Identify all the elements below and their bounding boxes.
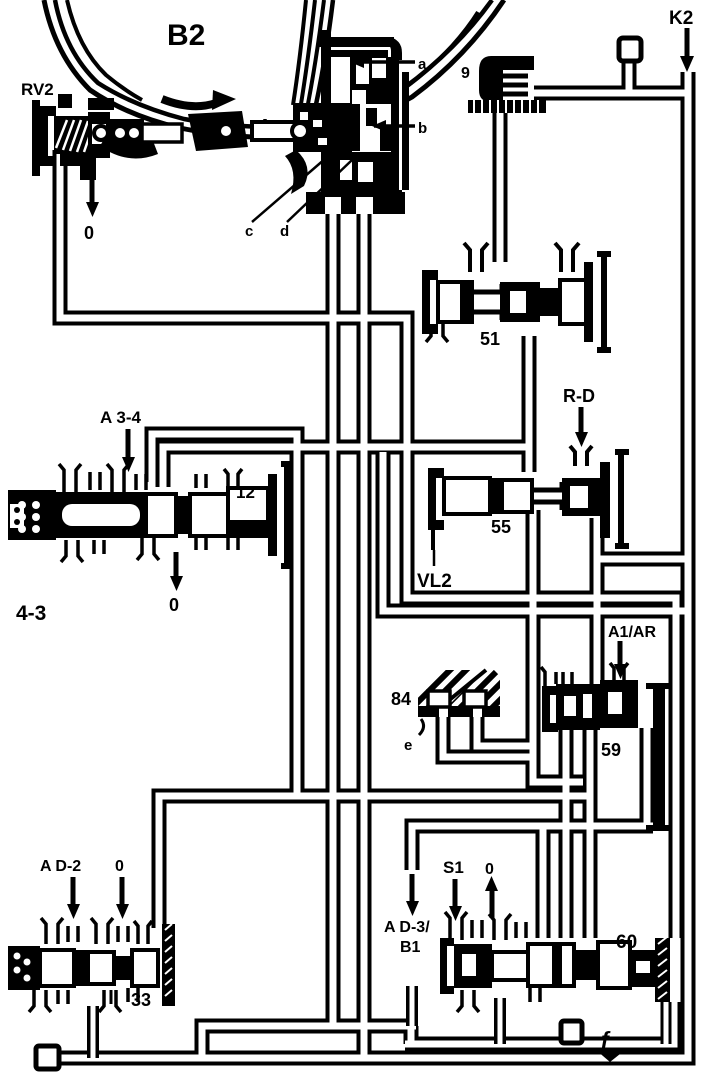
wire H1 to K2: [597, 552, 686, 567]
node arrow 0 valve33: [116, 877, 129, 919]
svg-text:55: 55: [491, 517, 511, 537]
component valve 55 body: [428, 452, 629, 566]
svg-text:A 3-4: A 3-4: [100, 408, 141, 427]
svg-text:9: 9: [461, 65, 470, 82]
wire outer L from H_b to K2 line: [383, 452, 690, 611]
spool: [444, 478, 490, 514]
node arrow AD-3/B1: [406, 874, 419, 916]
svg-text:60: 60: [616, 932, 637, 953]
wire inner white overlay narrow: [93, 986, 500, 1058]
node leader c: [252, 152, 333, 222]
bottom fins: [61, 540, 83, 562]
svg-text:e: e: [404, 737, 412, 754]
svg-text:A D-3/: A D-3/: [384, 919, 430, 936]
svg-text:B2: B2: [167, 19, 205, 52]
svg-text:59: 59: [601, 740, 621, 760]
svg-text:0: 0: [169, 595, 179, 615]
component valve 51 body: [422, 243, 611, 350]
component valve A1/AR body: [541, 663, 638, 732]
node inner drum edge right: [395, 12, 478, 95]
node band gap: [265, 117, 295, 133]
sleeve with bore: [56, 492, 146, 538]
wire pipe from component 9 down to valve 51: [493, 110, 508, 262]
bottom flange: [306, 192, 405, 214]
wire P2 long center pipe: [326, 210, 341, 1026]
node arrow A1/AR: [614, 641, 627, 679]
node arrow 0 under 4-3: [170, 552, 183, 591]
svg-text:K2: K2: [669, 8, 693, 29]
svg-text:12: 12: [236, 483, 255, 502]
node band end bundle to servo: [293, 0, 333, 118]
wire step down and lower right horizontal to V6: [405, 1002, 674, 1044]
right end plates: [600, 462, 610, 538]
node leader e: [419, 719, 424, 735]
component hatched plate right of 33: [162, 924, 175, 1006]
band anchor lug: [188, 111, 248, 151]
top port stubs: [464, 243, 488, 272]
left end block with dots: [8, 490, 56, 540]
node leader a: [350, 56, 415, 68]
bottom fins: [457, 990, 479, 1012]
wire hanging pipe A D-3/B1: [406, 986, 418, 1026]
wire pipe 84 a: [443, 714, 530, 757]
top nubs: [58, 94, 72, 108]
right end plates: [268, 474, 277, 556]
wire H9 top right horizontal: [534, 86, 686, 101]
node leader d: [287, 160, 352, 222]
wire VA under A1/AR: [559, 728, 574, 938]
valve RV2: [32, 94, 248, 180]
node arrow R-D: [575, 407, 588, 447]
svg-text:RV2: RV2: [21, 80, 54, 99]
piston block: [293, 103, 352, 152]
svg-text:S1: S1: [443, 858, 464, 877]
top fins: [59, 464, 81, 492]
component valve 33 body: [8, 918, 158, 1012]
node R-D port: [570, 446, 592, 466]
wire V7 valve55 bottom port down then right: [533, 510, 583, 782]
node inner drum edge left: [67, 0, 142, 100]
wire H_b horizontal: [163, 447, 529, 487]
body: [8, 946, 40, 990]
wire S1 box top: [412, 826, 653, 938]
component hatched plate right of 60: [655, 937, 670, 1002]
component 9 bracket: [468, 56, 546, 113]
body: [440, 938, 454, 994]
node rotation arrow: [162, 90, 236, 110]
svg-text:A D-2: A D-2: [40, 858, 81, 875]
bottom bracket: [60, 154, 96, 180]
svg-text:84: 84: [391, 689, 411, 709]
wire VB under A1/AR: [583, 728, 598, 938]
spool: [438, 282, 472, 322]
svg-text:VL2: VL2: [417, 571, 452, 592]
wire valve60 right drain: [661, 1002, 672, 1044]
top fins: [445, 912, 467, 940]
wire V5 valve55 right bottom down to A1/AR: [590, 518, 605, 684]
svg-text:d: d: [280, 223, 289, 240]
svg-text:0: 0: [485, 861, 494, 878]
node arrow A 3-4: [122, 429, 135, 472]
svg-text:51: 51: [480, 329, 500, 349]
wire left cap of bottom pipe: [36, 1046, 59, 1069]
svg-text:c: c: [245, 223, 253, 240]
top stubs: [563, 672, 572, 684]
svg-text:A1/AR: A1/AR: [608, 624, 656, 641]
svg-text:4-3: 4-3: [16, 602, 46, 625]
middle sections: [146, 494, 176, 536]
node drain arrow 0 under RV2: [86, 172, 99, 217]
top fins: [41, 918, 63, 944]
node B2 drum outer band arc: [44, 0, 504, 137]
wire LH1 valve33 feed: [159, 796, 592, 928]
wire top cap of stub: [619, 38, 641, 61]
node arrow S1: [449, 879, 462, 921]
node valve 51 bottom stubs: [426, 324, 448, 342]
node leader b: [372, 120, 415, 132]
inner white column: [331, 57, 350, 103]
node drain triangle: [596, 1050, 625, 1062]
right end plates: [584, 262, 593, 342]
wire RV2 drain run: RV2 down, right, down VA, right VL2 bottom, down V6: [60, 150, 676, 938]
svg-text:b: b: [418, 120, 427, 137]
bottom fins: [29, 990, 51, 1012]
narrow pipes: [93, 986, 500, 1058]
wire mid bottom horizontal from P2 elbow: [202, 1026, 416, 1058]
node f plug: [561, 1021, 582, 1043]
wire valve60 bottom drain: [494, 998, 506, 1044]
rod to band: [252, 122, 298, 140]
wire H_a + P1: [152, 434, 297, 794]
component right bracket plate: [646, 686, 670, 828]
wire pipe 84 b: [477, 714, 530, 746]
left bracket: [428, 468, 444, 530]
wire 59 box right: [640, 728, 655, 826]
svg-text:R-D: R-D: [563, 386, 595, 406]
lower section: [330, 152, 392, 198]
component valve 60 body: [440, 912, 657, 1012]
left bracket: [422, 270, 438, 334]
wire valve33 bottom drain: [87, 1006, 99, 1058]
node arrow K2: [680, 28, 694, 72]
svg-text:33: 33: [131, 990, 151, 1010]
component servo piston housing: [252, 30, 409, 214]
wire top stub with cap: [622, 58, 637, 93]
svg-text:B1: B1: [400, 939, 421, 956]
svg-text:0: 0: [84, 223, 94, 243]
node arrow 0 up: [485, 876, 498, 918]
svg-text:0: 0: [115, 858, 124, 875]
node arrow AD-2: [67, 877, 80, 919]
wire P3 long center pipe: [357, 210, 372, 1058]
svg-text:a: a: [418, 56, 427, 73]
node valve 33 bottom stub: [104, 990, 111, 1004]
right inner structure: [350, 57, 391, 104]
component 84 hatched wall: [404, 666, 538, 728]
wire riser valve51 bottom to valve55 top: [522, 336, 537, 472]
component valve 4-3 body: [8, 464, 293, 566]
